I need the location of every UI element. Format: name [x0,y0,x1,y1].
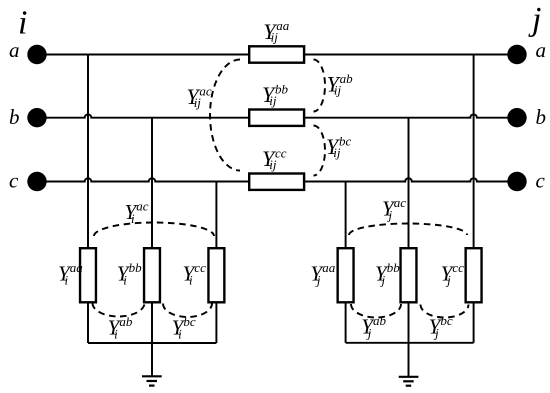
resistor box Yj_bb (shunt admittance) [401,248,417,302]
mutual admittance dashed arc Yij_bc [314,126,326,176]
terminal i-b [27,108,46,127]
terminal i-c [27,172,46,191]
svg-text:Yccj: Yccj [441,260,465,288]
resistor box Yij_aa (series admittance phase a) [249,46,304,62]
mutual shunt dashed arc Yj_ac [349,224,467,235]
svg-text:Ybbj: Ybbj [375,260,400,288]
svg-text:a: a [536,38,547,62]
svg-text:Yabij: Yabij [327,71,354,97]
terminal j-a [507,45,526,64]
wire from phase b down to shunt Yj_bb column [408,118,410,249]
wire phase b, i side (hop over vertical at x=87.8) [37,114,248,117]
wire from phase a down to shunt Yj_cc column [473,55,475,249]
wire below shunt Yj_aa [345,302,347,343]
svg-text:j: j [528,1,541,38]
svg-text:Yacj: Yacj [382,195,406,223]
wire below shunt Yi_aa [87,302,89,343]
mutual admittance dashed arc Yij_ac [210,60,240,171]
ground lead j side [408,343,410,377]
resistor box Yij_cc (series admittance phase c) [249,174,304,190]
svg-text:i: i [18,5,27,42]
svg-text:Ybbi: Ybbi [117,260,142,288]
wire below shunt Yi_bb [151,302,153,343]
svg-text:Yacij: Yacij [186,83,212,109]
resistor box Yij_bb (series admittance phase b) [249,110,304,126]
wire from phase a down to shunt Yi_aa [87,55,89,249]
svg-text:Ybcj: Ybcj [429,313,453,341]
wire phase b, j side (hop over vertical at x=473.4) [305,114,517,117]
svg-text:a: a [9,38,20,62]
wire phase a, j side [305,54,517,56]
mutual shunt dashed arc Yi_ab [93,303,145,317]
mutual shunt dashed arc Yi_bc [163,304,212,318]
wire below shunt Yi_cc [215,302,217,343]
terminal i-a [27,45,46,64]
svg-text:Yabi: Yabi [108,314,133,342]
wire from phase b down to shunt Yi_bb [151,118,153,249]
bottom bus wire, j side [346,342,474,344]
svg-text:Ycci: Ycci [183,260,207,288]
ground symbol i side [142,376,162,385]
svg-text:Yaaij: Yaaij [263,18,290,44]
mutual shunt dashed arc Yi_ac [94,223,214,237]
svg-text:c: c [536,169,546,193]
terminal j-c [507,172,526,191]
terminal j-b [507,108,526,127]
resistor box Yi_cc (shunt admittance) [208,248,224,302]
resistor box Yj_cc (shunt admittance) [466,248,482,302]
svg-text:Ybbij: Ybbij [262,81,289,107]
mutual shunt dashed arc Yj_ab [351,304,401,317]
svg-text:Yaci: Yaci [125,198,149,226]
svg-text:Ybcij: Ybcij [326,133,352,159]
svg-text:Yccij: Yccij [262,145,287,171]
resistor box Yi_bb (shunt admittance) [144,248,160,302]
resistor box Yi_aa (shunt admittance) [80,248,96,302]
svg-text:b: b [9,105,20,129]
mutual admittance dashed arc Yij_ab [314,60,326,112]
wire phase c, i side (hops at x=87.8 and x=151.8) [37,178,248,181]
wire from phase c down to shunt Yi_cc [215,182,217,249]
mutual shunt dashed arc Yj_bc [421,305,469,318]
wire below shunt Yj_cc [473,302,475,343]
ground symbol j side [399,377,419,386]
wire phase c, j side (hops at x=408.3 and x=473.4) [305,178,517,181]
svg-text:Ybci: Ybci [172,314,196,342]
svg-text:c: c [9,169,19,193]
resistor box Yj_aa (shunt admittance) [338,248,354,302]
ground lead i side [151,343,153,376]
bottom bus wire, i side [88,342,216,344]
wire phase a, i side [37,54,248,56]
svg-text:Yaaj: Yaaj [310,260,335,288]
wire from phase c down to shunt Yj_aa column [345,182,347,249]
wire below shunt Yj_bb [408,302,410,343]
svg-text:Yabj: Yabj [361,313,386,341]
svg-text:b: b [536,105,547,129]
